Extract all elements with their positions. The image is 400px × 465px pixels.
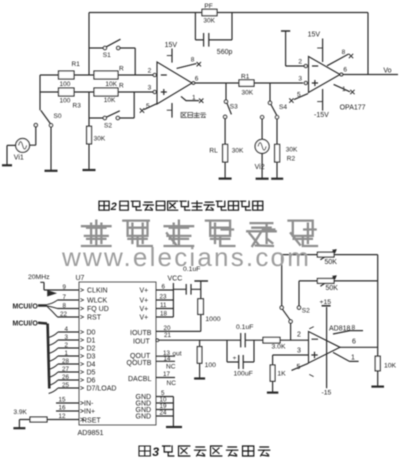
svg-text:3: 3 [152, 445, 159, 459]
svg-text:S1: S1 [103, 52, 111, 59]
svg-text:2: 2 [65, 342, 69, 349]
svg-text:out: out [173, 351, 182, 358]
svg-text:MCUI/O: MCUI/O [13, 304, 39, 311]
svg-text:1: 1 [192, 94, 196, 101]
svg-text:6: 6 [352, 338, 356, 345]
svg-text:100uF: 100uF [234, 370, 253, 377]
svg-text:-15: -15 [322, 390, 332, 397]
svg-text:AD9851: AD9851 [78, 428, 104, 437]
svg-text:28: 28 [62, 358, 69, 365]
svg-text:30K: 30K [94, 136, 106, 143]
svg-text:8: 8 [352, 324, 356, 331]
svg-text:FQ UD: FQ UD [87, 306, 109, 313]
svg-text:GND: GND [136, 414, 152, 421]
svg-text:MCUI/O: MCUI/O [13, 320, 39, 327]
svg-text:10K: 10K [104, 97, 116, 104]
svg-text:3: 3 [298, 75, 302, 82]
svg-text:4: 4 [65, 326, 69, 333]
svg-text:QOUTB: QOUTB [127, 360, 152, 367]
svg-text:8: 8 [342, 49, 346, 56]
svg-text:D7/LOAD: D7/LOAD [87, 386, 117, 393]
svg-text:18: 18 [160, 311, 167, 318]
svg-text:2: 2 [298, 58, 302, 65]
svg-text:S2: S2 [302, 307, 310, 314]
svg-text:21: 21 [164, 332, 171, 339]
svg-text:VCC: VCC [168, 276, 183, 283]
svg-text:14: 14 [164, 356, 171, 363]
svg-text:15V: 15V [165, 42, 178, 49]
svg-text:D4: D4 [87, 362, 96, 369]
svg-text:30K: 30K [232, 148, 244, 155]
svg-text:D2: D2 [87, 346, 96, 353]
svg-text:15V: 15V [308, 31, 321, 38]
svg-text:R3: R3 [73, 102, 82, 109]
svg-text:IN+: IN+ [84, 409, 95, 416]
svg-text:V+: V+ [140, 288, 149, 295]
svg-text:R1: R1 [72, 61, 81, 68]
svg-text:IOUTB: IOUTB [130, 330, 152, 337]
svg-text:30K: 30K [242, 89, 254, 96]
svg-text:5: 5 [297, 364, 301, 371]
svg-text:QOUT: QOUT [130, 353, 151, 360]
svg-text:100: 100 [60, 98, 71, 105]
svg-text:Vi1: Vi1 [14, 155, 24, 162]
svg-text:1: 1 [351, 354, 355, 361]
svg-text:27: 27 [62, 366, 69, 373]
svg-text:WLCK: WLCK [87, 298, 108, 305]
svg-text:100: 100 [60, 81, 71, 88]
svg-text:+15: +15 [320, 299, 332, 306]
svg-text:D1: D1 [87, 338, 96, 345]
svg-text:V+: V+ [140, 315, 149, 322]
svg-text:12: 12 [59, 413, 66, 420]
svg-text:3.9K: 3.9K [14, 409, 28, 416]
svg-text:R1: R1 [241, 73, 250, 80]
svg-text:2: 2 [297, 332, 301, 339]
svg-text:50K: 50K [326, 285, 339, 292]
svg-text:NC: NC [167, 380, 177, 387]
svg-text:3: 3 [297, 348, 301, 355]
svg-text:25: 25 [62, 382, 69, 389]
svg-text:15: 15 [59, 397, 66, 404]
svg-text:8: 8 [63, 302, 67, 309]
svg-text:S0: S0 [54, 113, 62, 120]
svg-text:1000: 1000 [205, 316, 220, 323]
svg-text:17: 17 [163, 371, 170, 378]
svg-text:U7: U7 [76, 275, 85, 282]
svg-text:+: + [233, 355, 237, 362]
svg-text:30K: 30K [203, 17, 215, 24]
svg-text:D3: D3 [87, 354, 96, 361]
svg-text:2: 2 [148, 68, 152, 75]
svg-text:S2: S2 [104, 123, 112, 130]
svg-text:AD818: AD818 [329, 325, 351, 332]
svg-text:V+: V+ [140, 306, 149, 313]
svg-text:OPA177: OPA177 [340, 105, 366, 112]
svg-text:9: 9 [63, 284, 67, 291]
svg-text:S4: S4 [279, 104, 287, 111]
svg-text:0.1uF: 0.1uF [236, 324, 253, 331]
svg-text:5: 5 [297, 91, 301, 98]
svg-text:S3: S3 [230, 104, 238, 111]
svg-text:6: 6 [195, 76, 199, 83]
svg-text:D0: D0 [87, 330, 96, 337]
svg-text:1K: 1K [277, 371, 286, 378]
svg-text:IOUT: IOUT [133, 338, 150, 345]
svg-text:26: 26 [62, 374, 69, 381]
svg-text:2: 2 [110, 201, 117, 213]
svg-text:1: 1 [65, 350, 69, 357]
svg-text:5: 5 [146, 103, 150, 110]
svg-text:8: 8 [191, 57, 195, 64]
svg-text:IN-: IN- [84, 401, 94, 408]
svg-text:23: 23 [160, 294, 167, 301]
svg-text:16: 16 [59, 405, 66, 412]
svg-text:Vi2: Vi2 [255, 164, 265, 171]
svg-text:-15V: -15V [314, 112, 329, 119]
svg-text:22: 22 [60, 311, 67, 318]
svg-text:30K: 30K [286, 146, 298, 153]
svg-text:RSET: RSET [82, 417, 101, 424]
svg-text:7: 7 [63, 294, 67, 301]
svg-text:10K: 10K [105, 81, 117, 88]
svg-text:6: 6 [343, 67, 347, 74]
svg-text:6: 6 [162, 284, 166, 291]
svg-text:R: R [119, 66, 124, 73]
svg-text:PF: PF [204, 3, 212, 10]
svg-text:3: 3 [148, 85, 152, 92]
svg-text:50K: 50K [325, 259, 338, 266]
svg-text:20MHz: 20MHz [28, 274, 50, 281]
svg-text:0.1uF: 0.1uF [183, 266, 200, 273]
svg-text:24: 24 [160, 410, 167, 417]
svg-text:560p: 560p [217, 49, 233, 56]
svg-text:3: 3 [65, 334, 69, 341]
svg-text:R: R [119, 83, 124, 90]
svg-text:RST: RST [87, 315, 102, 322]
svg-text:100: 100 [205, 362, 217, 369]
svg-text:DACBL: DACBL [128, 376, 151, 383]
svg-text:NC: NC [166, 364, 176, 371]
svg-text:CLKIN: CLKIN [87, 288, 108, 295]
svg-text:D5: D5 [87, 370, 96, 377]
svg-text:Vo: Vo [383, 67, 391, 74]
svg-text:10K: 10K [384, 362, 397, 369]
svg-text:1: 1 [342, 86, 346, 93]
svg-text:R2: R2 [287, 156, 296, 163]
svg-text:V+: V+ [140, 298, 149, 305]
svg-text:3.0K: 3.0K [272, 344, 286, 351]
svg-text:11: 11 [160, 302, 167, 309]
svg-text:RL: RL [209, 148, 218, 155]
svg-text:D6: D6 [87, 378, 96, 385]
